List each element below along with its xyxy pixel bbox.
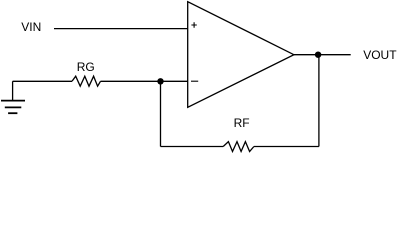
svg-text:VIN: VIN: [21, 20, 41, 34]
wire op-amp output: [294, 54, 351, 56]
wire feedback right segment: [254, 146, 319, 148]
op-amp noninverting pin +: [191, 22, 196, 27]
output junction node: [315, 52, 321, 58]
svg-text:RF: RF: [234, 116, 250, 130]
resistor RG: [72, 76, 101, 86]
svg-text:RG: RG: [77, 60, 95, 74]
op-amp U1: [188, 2, 294, 108]
resistor RF: [223, 142, 254, 152]
junction node at inverting input: [157, 78, 163, 84]
op-amp inverting pin -: [191, 80, 198, 82]
ground: [1, 81, 25, 113]
wire feedback up to output: [318, 55, 320, 147]
wire ground to RG: [13, 80, 72, 82]
svg-text:VOUT: VOUT: [363, 48, 397, 62]
wire feedback left segment: [161, 146, 224, 148]
wire VIN to noninverting input: [54, 28, 188, 30]
wire junction down to feedback: [160, 81, 162, 146]
wire RG to inverting input: [101, 80, 188, 82]
